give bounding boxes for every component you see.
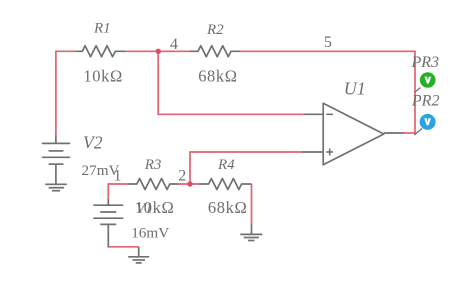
wire R4 to ground drop bbox=[251, 184, 253, 225]
wire R1 to node 4 to R2 bbox=[126, 50, 190, 52]
resistor R2 bbox=[190, 46, 241, 57]
probe PR3 pointer bbox=[415, 88, 421, 93]
node 2 junction bbox=[187, 181, 192, 186]
probe PR3 (green V) bbox=[420, 72, 436, 88]
ground below V1 bbox=[128, 247, 149, 263]
resistor R1 bbox=[75, 46, 126, 57]
probe PR2 (blue V) bbox=[420, 114, 436, 130]
svg-text:R3: R3 bbox=[144, 157, 162, 173]
wire V1 bottom to ground bbox=[107, 246, 138, 248]
svg-text:R4: R4 bbox=[217, 157, 235, 173]
op-amp minus sign bbox=[326, 113, 333, 115]
op-amp non-inverting input lead bbox=[302, 151, 322, 153]
svg-text:68kΩ: 68kΩ bbox=[198, 67, 237, 86]
op-amp output lead bbox=[384, 132, 404, 134]
svg-text:10kΩ: 10kΩ bbox=[83, 66, 122, 85]
wire net 5 from R2 to right riser bbox=[240, 51, 415, 133]
ground below V2 bbox=[45, 184, 67, 190]
svg-text:U1: U1 bbox=[344, 79, 366, 99]
ground below R4 bbox=[240, 225, 262, 241]
probe PR2 pointer bbox=[414, 128, 422, 135]
wire node 2 up to non-inverting input bbox=[190, 152, 302, 184]
wire V1 top to R3 bbox=[108, 184, 128, 199]
resistor R3 bbox=[128, 179, 179, 190]
svg-text:PR3: PR3 bbox=[411, 54, 440, 71]
op-amp inverting input lead bbox=[305, 113, 323, 115]
svg-text:R2: R2 bbox=[206, 22, 224, 38]
wire V2 top riser bbox=[56, 51, 75, 135]
svg-text:PR2: PR2 bbox=[411, 92, 440, 109]
resistor R4 bbox=[199, 179, 252, 190]
wire R3 to node 2 to R4 bbox=[179, 183, 199, 185]
svg-text:10kΩ: 10kΩ bbox=[135, 198, 174, 217]
svg-text:1: 1 bbox=[114, 167, 122, 184]
op-amp U1 bbox=[323, 103, 384, 165]
svg-text:R1: R1 bbox=[93, 21, 111, 37]
svg-text:5: 5 bbox=[324, 34, 332, 51]
svg-text:16mV: 16mV bbox=[131, 224, 169, 241]
svg-text:V2: V2 bbox=[83, 132, 103, 152]
battery V1 bbox=[93, 199, 123, 247]
op-amp plus sign bbox=[326, 149, 333, 156]
wire op-amp output bbox=[404, 132, 416, 134]
node 4 junction bbox=[156, 49, 161, 54]
svg-text:4: 4 bbox=[170, 36, 178, 53]
svg-text:2: 2 bbox=[178, 168, 186, 185]
battery V2 bbox=[42, 135, 70, 184]
svg-text:68kΩ: 68kΩ bbox=[208, 198, 247, 217]
wire node 4 down to inverting input bbox=[158, 51, 304, 114]
